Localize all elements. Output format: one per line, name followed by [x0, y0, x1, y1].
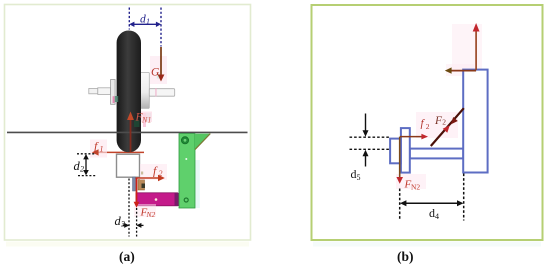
svg-text:1: 1: [146, 17, 150, 26]
svg-text:2: 2: [159, 169, 163, 178]
svg-text:N2: N2: [146, 210, 156, 219]
svg-text:2: 2: [80, 164, 84, 173]
svg-text:1: 1: [100, 144, 104, 153]
svg-text:(a): (a): [119, 249, 135, 264]
svg-text:N1: N1: [141, 116, 151, 125]
svg-text:4: 4: [435, 212, 439, 221]
svg-text:2: 2: [426, 122, 430, 131]
svg-text:N2: N2: [411, 183, 420, 192]
svg-text:3: 3: [120, 219, 125, 228]
svg-text:G: G: [151, 67, 160, 79]
svg-text:(b): (b): [397, 249, 414, 264]
svg-text:5: 5: [357, 173, 361, 182]
svg-text:2: 2: [442, 118, 446, 127]
